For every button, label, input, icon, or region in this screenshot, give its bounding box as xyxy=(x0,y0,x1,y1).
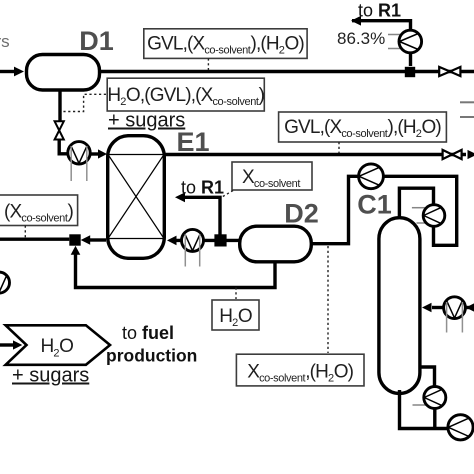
reboiler return arrow (right edge into C1) xyxy=(422,303,474,313)
pipe V1 to pump P2 xyxy=(59,140,70,154)
pump P2 (E1 feed) xyxy=(68,142,90,164)
pump P4 (C1 loop, top) xyxy=(359,164,384,189)
label D1 xyxy=(79,26,114,56)
pipe E1 bottom line (D2 to E1) xyxy=(167,236,240,246)
recycle pipe D2 bottoms to J3 (arrow up) xyxy=(71,246,275,288)
svg-text:D1: D1 xyxy=(79,26,114,56)
stream box H2O,(GVL),(Xco-solvent) xyxy=(107,78,264,111)
arrow P2 into E1 xyxy=(90,149,107,158)
pump P5 legs xyxy=(412,208,427,223)
dashed connector middle box to pipe xyxy=(338,142,340,153)
feed banner arrow xyxy=(0,340,22,349)
pipe J1 up to pump P1 and to R1 xyxy=(351,16,411,66)
stream box Xco-solvent xyxy=(232,162,312,190)
pipe C1 bottoms to pump P8 xyxy=(400,390,451,429)
pipe D1 overhead to junction J1 xyxy=(99,70,474,73)
label + sugars (cropped at left edge) xyxy=(0,32,10,51)
pump P2 legs xyxy=(71,146,87,181)
pipe E1 overhead to valve xyxy=(164,153,466,156)
to R1 branch (middle) xyxy=(175,192,220,234)
pump P7 legs xyxy=(413,404,427,406)
pipe D2 to C1 loop (feed + overhead loop) xyxy=(310,176,457,245)
column E1 xyxy=(108,136,165,259)
feed banner H2O pentagon xyxy=(6,325,110,365)
column C1 xyxy=(379,218,420,394)
junction J2 (black square) xyxy=(214,234,226,246)
drum D1 xyxy=(27,55,100,91)
label + sugars (under box) xyxy=(108,110,185,132)
label D2 xyxy=(284,199,319,229)
legs of cropped pump (right edge) xyxy=(460,102,474,117)
label to R1 (middle) xyxy=(181,178,224,198)
dotted connector H2O box to D1 bottoms xyxy=(61,94,106,111)
dashed connector D2-C1 pipe to box xyxy=(327,246,329,353)
pump P8 (bottoms) xyxy=(448,415,473,440)
svg-text:E1: E1 xyxy=(176,127,209,157)
svg-text:C1: C1 xyxy=(357,190,392,220)
stream box (Xco-solvent) left xyxy=(0,195,78,226)
label 86.3% xyxy=(337,29,385,48)
svg-text:+ sugars: + sugars xyxy=(12,365,89,387)
label E1 xyxy=(176,127,209,157)
label + sugars (bottom) xyxy=(12,365,89,387)
pipe C1 side draw to pump P7 xyxy=(419,367,435,390)
svg-text:to R1: to R1 xyxy=(358,1,401,21)
valve V1 (vertical) xyxy=(55,121,64,139)
stream box H2O xyxy=(212,300,259,330)
stream box GVL,(Xco-solvent),(H2O) middle xyxy=(279,112,447,142)
svg-text:+ sugars: + sugars xyxy=(108,110,185,132)
dashed connector box to R1 branch xyxy=(222,191,233,198)
pump P9 (cropped, left edge) xyxy=(0,272,10,293)
junction J3 (black square) xyxy=(69,234,80,245)
svg-text:86.3%: 86.3% xyxy=(337,29,385,48)
svg-text:production: production xyxy=(106,346,197,366)
feed arrow into D1 xyxy=(0,67,24,77)
pump P6 legs xyxy=(447,302,463,333)
valve V3 + arrow to right edge xyxy=(443,150,474,159)
valve V2 (top right line) xyxy=(439,67,460,76)
dotted connector left box to pipe xyxy=(24,226,26,238)
svg-text:rs: rs xyxy=(0,32,10,51)
pump P3 (E1 return) xyxy=(182,229,204,251)
dashed connector box to pipe xyxy=(207,58,209,70)
stream box GVL,(Xco-solvent),(H2O) top xyxy=(144,29,307,59)
pump P5 (condenser) xyxy=(423,205,445,227)
pipe J3 to left edge xyxy=(0,237,69,240)
pump P1 (to R1, top right) xyxy=(399,30,422,53)
dashed connector recycle pipe to H2O box xyxy=(235,288,237,300)
pipe D1 bottoms xyxy=(58,89,61,122)
label to R1 (top) xyxy=(358,1,401,21)
svg-text:D2: D2 xyxy=(284,199,319,229)
svg-text:to fuel: to fuel xyxy=(122,323,174,343)
junction J1 (black square) xyxy=(405,67,415,77)
drum D2 xyxy=(240,226,312,262)
pump P1 legs xyxy=(388,35,402,49)
pump P7 (side draw) xyxy=(424,387,446,409)
label to fuel production xyxy=(106,323,197,366)
svg-text:to R1: to R1 xyxy=(181,178,224,198)
pump P6 (reboiler circ) xyxy=(444,297,466,319)
label C1 xyxy=(357,190,392,220)
stream box Xco-solvent,(H2O) xyxy=(236,354,364,386)
pump P3 legs xyxy=(185,234,199,267)
pipe E1 bottoms to junction J3 (with arrow into J3) xyxy=(81,235,106,245)
